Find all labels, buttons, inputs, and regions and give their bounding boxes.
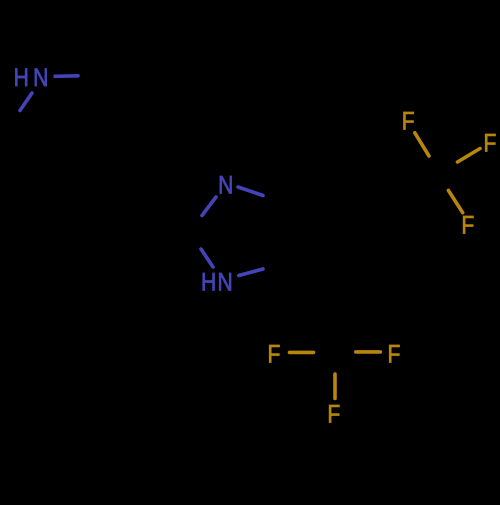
svg-text:F: F — [461, 211, 474, 239]
svg-text:F: F — [387, 340, 400, 368]
svg-text:N: N — [33, 64, 48, 92]
invisible bond benzo C7 to CF3 bottom carbon — [334, 291, 338, 352]
wire: imidazole N3-C2 half-bond — [201, 249, 213, 267]
wire: bottom CF3 C-F5 half-bond — [356, 350, 381, 354]
wire: bottom CF3 C-F4 half-bond — [290, 351, 314, 355]
wire: bottom CF3 C-F6 half-bond — [333, 374, 337, 399]
svg-text:F: F — [327, 400, 340, 428]
svg-text:F: F — [402, 107, 415, 135]
invisible carbon skeleton: piperidine ring — [8, 74, 133, 181]
svg-text:F: F — [483, 129, 496, 157]
wire: piperidine N-CH2 half-bond (down-left of HN) — [20, 93, 32, 111]
svg-text:H: H — [14, 64, 29, 92]
wire: imidazole N1-C2 half-bond — [202, 197, 216, 216]
wire: piperidine N-CH2 half-bond (right of HN) — [55, 74, 78, 78]
invisible carbon skeleton: linker C4p to C2 — [102, 178, 190, 233]
wire: top CF3 C-F3 half-bond — [448, 190, 462, 212]
wire: top CF3 C-F2 half-bond — [458, 149, 481, 163]
invisible carbon skeleton: benzo ring — [287, 175, 389, 291]
wire: imidazole N1-C7a half-bond — [238, 187, 263, 196]
wire: imidazole N3-C3a half-bond — [239, 269, 263, 276]
svg-text:F: F — [267, 340, 280, 368]
invisible bond benzo C5 to CF3 top carbon — [388, 173, 437, 204]
svg-text:H: H — [201, 268, 216, 296]
svg-text:N: N — [218, 268, 233, 296]
svg-text:N: N — [218, 171, 233, 199]
wire: top CF3 C-F1 half-bond — [415, 133, 429, 156]
